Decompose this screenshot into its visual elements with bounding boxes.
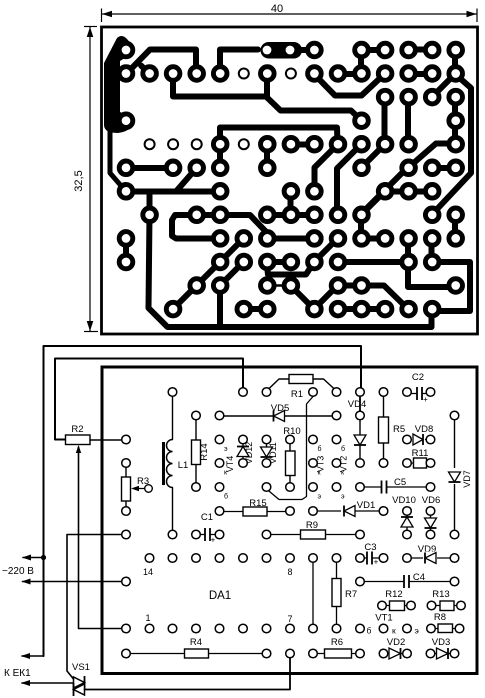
pad [308,67,322,81]
pin pad [427,601,436,610]
trace [291,142,315,148]
pad [190,67,204,81]
svg-text:VD6: VD6 [422,495,440,506]
trace [267,259,291,265]
pin pad [145,554,154,563]
pad [213,279,227,293]
svg-text:э: э [318,494,322,501]
pad [190,279,204,293]
pad [308,302,322,316]
pad [166,67,180,81]
pin pad [356,459,365,468]
pad [425,90,439,104]
svg-text:C1: C1 [201,512,213,523]
pin pad [450,577,459,586]
trace [172,215,220,239]
copper pour blob left [104,36,133,133]
pad [119,255,133,269]
pad [425,43,439,57]
pin pad [407,601,416,610]
svg-text:К ЕК1: К ЕК1 [4,668,31,679]
pin pad [122,459,131,468]
trace [197,212,221,218]
wire R2 feed [55,359,243,440]
svg-text:VT1: VT1 [375,613,392,624]
trace from blob to pad [110,125,126,192]
pin pad [309,435,318,444]
pin pad [426,435,435,444]
pin pad [262,554,271,563]
pad [119,114,133,128]
pin pad [450,411,459,420]
svg-text:R12: R12 [385,589,402,600]
trimmer R3 wiper [145,485,153,493]
pad [237,302,251,316]
pin pad [450,649,459,658]
wire R10 pin link [267,397,314,500]
trace [126,165,173,171]
trace [361,171,404,215]
pin pad [168,530,177,539]
svg-text:б: б [224,493,228,501]
pad [402,67,416,81]
pad [190,208,204,222]
PCB board outline [102,27,478,334]
pad [425,208,439,222]
pin pad [239,459,248,468]
svg-text:VD10: VD10 [392,495,416,506]
wire VS1 anode out [85,654,291,690]
trace [405,239,411,263]
pad [237,255,251,269]
svg-text:−220 В: −220 В [2,566,34,577]
hole [239,69,249,79]
svg-text:DA1: DA1 [209,590,231,602]
pin pad [239,624,248,633]
pad [378,43,392,57]
hole [168,139,178,149]
svg-text:+: + [423,395,428,404]
trace [244,306,268,312]
pad [402,161,416,175]
trace [361,192,385,216]
pin pad [332,483,341,492]
pad [425,255,439,269]
junction dot [41,555,46,560]
trace [220,128,338,145]
pad [449,43,463,57]
hole [145,139,155,149]
pad [119,43,133,57]
trace [314,74,385,96]
pad [261,67,275,81]
pin pad [379,554,388,563]
trace [267,284,291,287]
svg-text:L1: L1 [178,460,189,471]
trace [264,145,270,169]
pin pad [450,554,459,563]
pad [119,67,133,81]
trace [361,215,385,239]
pin pad [309,554,318,563]
pin pad [332,624,341,633]
pin pad [356,649,365,658]
trace [220,239,244,263]
pin pad [168,388,177,397]
trace [338,306,385,312]
pad [402,232,416,246]
pin pad [426,483,435,492]
pad [308,137,322,151]
pad [308,255,322,269]
svg-text:8: 8 [287,567,292,577]
pad [331,208,345,222]
pin pad [122,507,131,516]
trace [382,98,388,145]
pin pad [215,459,224,468]
trace [291,286,315,310]
pad [261,232,275,246]
wire R2 wiper to pin [79,447,127,629]
pin pad [379,624,388,633]
pad [355,161,369,175]
hole [192,139,202,149]
pin pad [356,483,365,492]
svg-text:э: э [415,626,419,636]
wire VS1 gate [67,535,126,680]
trace [147,192,153,216]
pin pad [356,577,365,586]
svg-text:R4: R4 [190,637,202,648]
pin pad [122,649,131,658]
pad [261,302,275,316]
pin pad [192,483,201,492]
pin pad [286,507,295,516]
pin pad [403,554,412,563]
svg-text:R7: R7 [345,589,357,600]
pin pad [286,649,295,658]
svg-text:R1: R1 [291,389,303,400]
svg-text:б: б [341,445,345,453]
pin pad [403,530,412,539]
wire -220V lower [23,581,127,583]
svg-text:R13: R13 [432,589,449,600]
svg-text:R5: R5 [393,424,405,435]
svg-text:R8: R8 [434,612,446,623]
pin pad [239,388,248,397]
pin pad [192,411,201,420]
svg-text:VD2: VD2 [387,637,405,648]
trace [123,239,129,263]
svg-text:к: к [392,626,396,636]
pad [261,279,275,293]
pin pad [215,554,224,563]
svg-text:VD3: VD3 [432,637,450,648]
trace [220,50,258,75]
trace [361,145,385,169]
trace [217,286,223,328]
svg-text:R2: R2 [71,424,83,435]
pin pad [262,388,271,397]
pad [261,255,275,269]
pin pad [286,624,295,633]
pad [213,255,227,269]
trace [267,212,314,218]
trace [432,74,456,98]
pin pad [309,507,318,516]
trace [267,236,314,242]
pad [378,302,392,316]
pad [449,67,463,81]
trace [361,47,385,53]
pad [378,67,392,81]
wire K EK1 upper [22,655,44,657]
pad [449,90,463,104]
pad [402,90,416,104]
pin pad [309,483,318,492]
pin pad [192,554,201,563]
hole [286,69,296,79]
pin pad [309,388,318,397]
pin pad [403,388,412,397]
pad [284,137,298,151]
pin pad [215,530,224,539]
board outline component side [102,367,477,674]
pad [331,67,345,81]
trace [173,286,197,310]
pad [425,232,439,246]
trace [408,71,432,77]
pad [166,302,180,316]
pad [119,232,133,246]
pad [190,161,204,175]
svg-text:э: э [341,494,345,501]
pin pad [403,649,412,658]
trace [409,144,455,168]
pin pad [455,624,464,633]
trace [432,165,456,171]
trace [126,50,196,75]
trace [385,189,432,195]
trace [338,259,409,265]
pad [355,43,369,57]
svg-text:7: 7 [287,614,292,624]
pad [284,185,298,199]
pad [119,185,133,199]
pad [331,255,345,269]
pin pad [332,554,341,563]
pad [402,43,416,57]
svg-text:VD4: VD4 [348,399,366,410]
pin pad [192,530,201,539]
pad [213,67,227,81]
pin pad [403,459,412,468]
svg-text:+: + [211,536,216,545]
trace [432,74,472,215]
pin pad [215,624,224,633]
svg-text:+: + [374,558,379,567]
pin pad [215,411,224,420]
trace [315,145,338,192]
pad [213,137,227,151]
pin pad [379,507,388,516]
pin pad [286,554,295,563]
trace [176,168,197,192]
svg-text:C2: C2 [412,372,424,383]
pad [425,302,439,316]
pad [331,279,345,293]
trace [338,286,409,310]
pad [355,232,369,246]
pad [261,208,275,222]
jumper obround pad [261,42,303,59]
svg-text:б: б [367,626,372,636]
dimension 40 line [102,13,478,15]
pad [449,232,463,246]
pad [449,114,463,128]
pad [355,279,369,293]
pin pad [450,530,459,539]
pin pad [192,624,201,633]
wire DA1 pin link [312,558,314,629]
pin pad [122,624,131,633]
trace [220,215,271,237]
pin pad [332,388,341,397]
pin pad [426,507,435,516]
svg-text:32,5: 32,5 [73,170,85,191]
wire K EK1 lower to VS1 [22,682,74,684]
trace [173,74,266,97]
pin pad [145,624,154,633]
pad [261,137,275,151]
pad [331,137,345,151]
pad [402,302,416,316]
trace [452,215,458,239]
pin pad [356,411,365,420]
pin pad [262,530,271,539]
trace [197,262,221,286]
pad [355,302,369,316]
pin pad [426,388,435,397]
trace [432,262,471,311]
pin pad [215,507,224,516]
pad [378,232,392,246]
svg-text:VD7: VD7 [462,470,472,488]
pad [378,90,392,104]
pin pad [379,649,388,658]
pad [308,232,322,246]
trace [264,74,270,97]
pin pad [262,624,271,633]
wire -220V upper [23,557,44,559]
pin pad [215,483,224,492]
pad [355,137,369,151]
pin pad [309,459,318,468]
trace [314,239,338,263]
pad [213,208,227,222]
pad [449,161,463,175]
pin pad [356,530,365,539]
trace [408,47,432,53]
pin pad [379,459,388,468]
pin pad [122,530,131,539]
pad [355,67,369,81]
trace [452,98,458,144]
pad [331,302,345,316]
pad [378,137,392,151]
pad [308,185,322,199]
pin pad [332,411,341,420]
pad [449,137,463,151]
trace [314,286,338,310]
trace [358,50,364,74]
pad [378,185,392,199]
pin pad [239,435,248,444]
pad [425,185,439,199]
pin pad [309,649,318,658]
pin pad [286,435,295,444]
trace [288,192,294,216]
pad [425,161,439,175]
svg-text:14: 14 [143,567,153,577]
pad [213,232,227,246]
pin pad [379,388,388,397]
pin pad [457,601,466,610]
pad [143,208,157,222]
pin pad [309,624,318,633]
pin pad [122,435,131,444]
pad [402,185,416,199]
pin pad [332,459,341,468]
pin pad [122,577,131,586]
pad [402,137,416,151]
dimension 32,5 line [89,27,91,332]
pin pad [427,624,436,633]
pin pad [286,483,295,492]
pad [425,67,439,81]
trace [126,189,220,195]
pad [213,185,227,199]
trace [220,262,244,286]
pad [166,161,180,175]
pad [119,161,133,175]
trace [149,215,432,327]
pin pad [403,624,412,633]
trace [405,98,411,145]
wire mains loop [44,346,362,656]
trace [337,145,361,216]
svg-text:б: б [318,445,322,453]
trace [452,50,458,75]
pin pad [332,435,341,444]
pad [449,208,463,222]
hole [239,139,249,149]
pad [308,208,322,222]
pin pad [239,554,248,563]
pin pad [168,554,177,563]
pad [284,279,298,293]
pad [143,67,157,81]
pad [284,255,298,269]
svg-text:40: 40 [271,3,283,15]
trace [429,239,435,263]
pin pad [262,483,271,492]
pad [261,161,275,175]
pad [308,43,322,57]
pad [213,161,227,175]
trace [408,262,455,287]
trace [141,66,150,75]
